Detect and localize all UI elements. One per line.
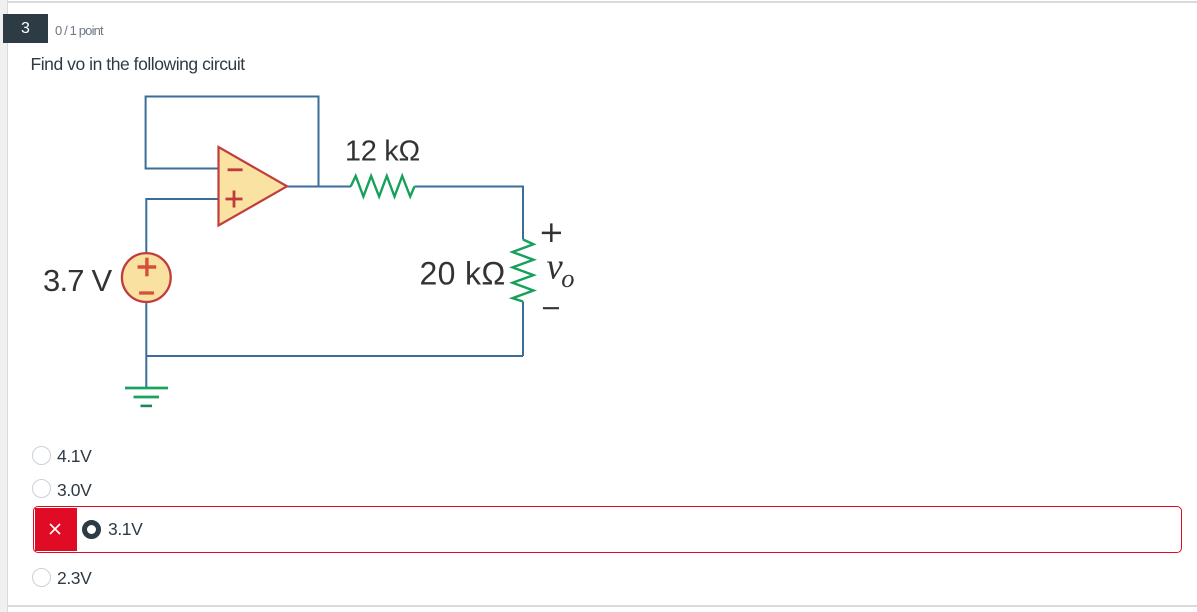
op-amp U1 non-inverting input marker <box>226 191 243 208</box>
wire: bottom return from ground node to 20k <box>146 355 523 357</box>
points label <box>55 23 103 38</box>
wire: op-amp output to 12k and on to right corner <box>287 187 523 240</box>
voltage source V1 3.7 V <box>122 253 171 302</box>
option 1: 4.1V <box>32 446 51 465</box>
node label: plus sign for vo <box>542 223 561 242</box>
wire: below 20k down to bottom corner <box>522 302 524 357</box>
svg-text:o: o <box>561 263 574 293</box>
left gray gutter strip <box>0 0 8 612</box>
resistor R1 12 kOhm (horizontal zigzag) <box>351 176 415 197</box>
op-amp U1 <box>219 147 288 226</box>
option 4: 2.3V <box>32 568 51 587</box>
wire: feedback loop from output to inverting input <box>146 97 319 187</box>
option 2: 3.0V <box>32 479 51 498</box>
selected incorrect option box: 3.1V <box>33 506 1183 553</box>
question text <box>31 54 245 75</box>
voltage source V1 plus terminal marker <box>138 258 157 277</box>
question number box <box>3 14 48 43</box>
svg-text:20 kΩ: 20 kΩ <box>420 255 506 291</box>
svg-text:3.7 V: 3.7 V <box>43 263 113 298</box>
bottom divider line <box>8 605 1197 607</box>
ground <box>125 388 168 406</box>
voltage source V1 minus terminal marker <box>139 291 154 294</box>
op-amp U1 inverting input marker <box>228 168 243 171</box>
svg-text:12 kΩ: 12 kΩ <box>345 135 420 167</box>
wire: source bottom to ground node <box>145 303 147 387</box>
circuit schematic <box>0 0 660 430</box>
node label: minus sign for vo <box>543 307 559 309</box>
wire: non-inverting input from source <box>146 199 218 252</box>
top divider line <box>8 1 1197 3</box>
resistor R2 20 kOhm (vertical zigzag) <box>513 240 534 302</box>
